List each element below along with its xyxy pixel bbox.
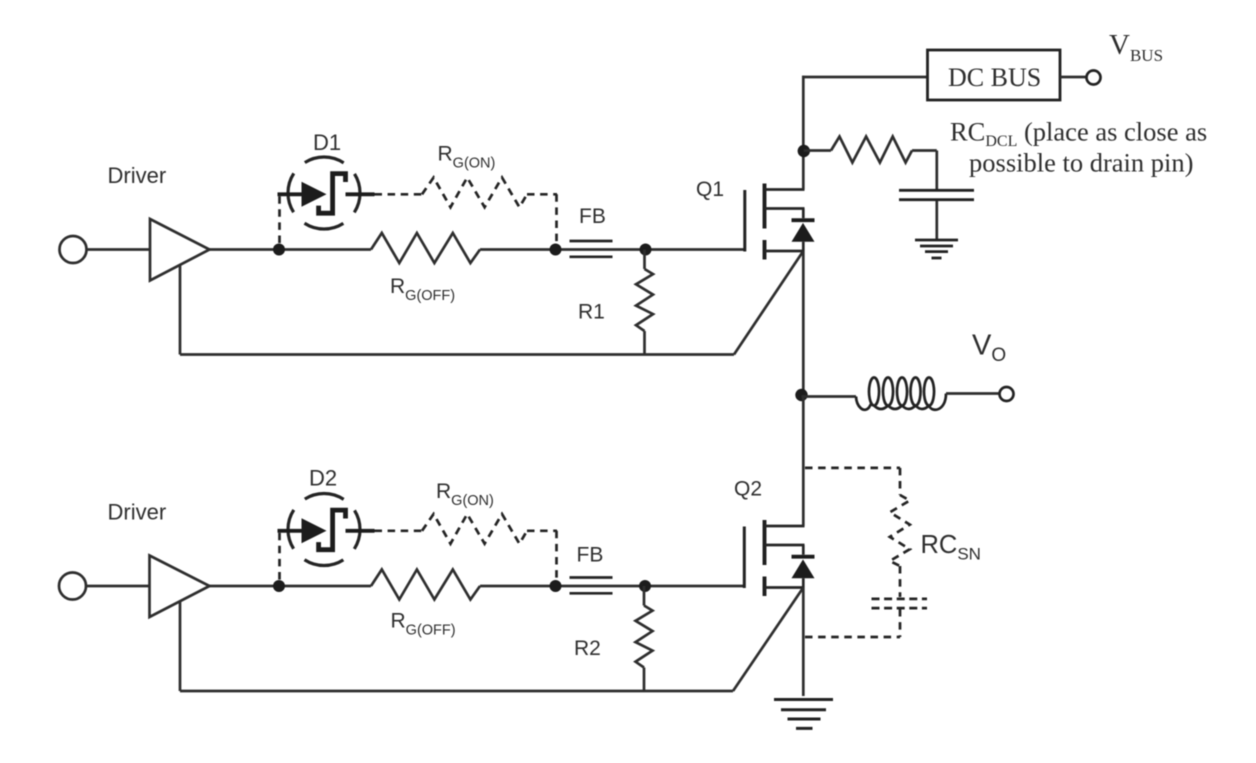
wire corner down to cap: [935, 151, 938, 190]
resistor RG(ON) dashed lead right (bottom): [527, 529, 557, 532]
diode D2 arrow triangle: [302, 518, 327, 543]
diode D2 cathode lead: [346, 529, 375, 533]
node dot B2 (bottom): [550, 580, 562, 592]
transistor Q1 drain tap: [765, 188, 805, 191]
body diode Q2 triangle: [792, 559, 815, 578]
wire driver output to RG(OFF) (top): [210, 248, 372, 251]
transistor Q1 source tap: [765, 250, 805, 253]
wire driver output to RG(OFF) (bottom): [210, 585, 372, 588]
transistor Q2 gate bar: [743, 527, 746, 589]
transistor Q2 drain tap: [765, 525, 805, 528]
op-amp driver U2 (bottom triangle): [150, 556, 210, 618]
svg-text:R1: R1: [578, 301, 605, 324]
resistor RG(ON) dashed zigzag (bottom): [422, 514, 527, 544]
node dot A1 (top): [273, 244, 285, 256]
node dot B1 (top): [550, 244, 562, 256]
wire Q1 source down to switch node: [802, 251, 805, 395]
svg-text:R2: R2: [574, 637, 601, 660]
wire node to RCDCL resistor: [804, 149, 831, 152]
wire feedback horizontal (bottom): [180, 690, 733, 693]
resistor RG(ON) dashed zigzag (top): [422, 178, 527, 208]
body diode Q2 cathode bar: [792, 555, 815, 559]
resistor RG(ON) dashed (top) : lead left: [375, 193, 423, 196]
wire dashed RCSN top branch: [805, 467, 900, 470]
wire Q2 body segment upper: [802, 545, 805, 555]
op-amp driver U1 (top triangle): [150, 219, 210, 281]
wire feedback horizontal (top): [180, 353, 734, 356]
transistor Q1 gate bar: [743, 190, 746, 252]
wire dashed RCSN right vertical upper: [899, 468, 902, 495]
svg-text:D2: D2: [309, 466, 337, 491]
wire RG(OFF) to gate (bottom): [480, 585, 745, 588]
wire feedback vertical below driver (top): [179, 266, 182, 355]
driver input terminal (top): [60, 236, 87, 263]
wire switch node down to Q2 drain: [802, 395, 805, 526]
resistor RG(OFF) zigzag (bottom): [371, 570, 480, 600]
svg-text:possible to drain pin): possible to drain pin): [969, 148, 1194, 178]
wire dashed node A2 up to D2: [278, 532, 281, 580]
diode D2 step cathode bar: [319, 510, 346, 550]
inductor L coil: [856, 378, 946, 410]
wire input to driver (top): [87, 248, 151, 251]
resistor R2 zigzag: [636, 606, 653, 668]
wire inductor to VO terminal: [946, 392, 1000, 395]
transistor Q1 channel bar upper: [763, 184, 767, 229]
resistor R1 lead top: [643, 250, 646, 270]
wire dashed RCSN resistor to cap: [899, 566, 902, 597]
node dot switch node: [795, 389, 807, 401]
wire Q2 body segment lower: [802, 578, 805, 587]
wire RCDCL resistor to corner: [912, 149, 937, 152]
diode D1 anode lead: [278, 192, 303, 196]
svg-text:Driver: Driver: [108, 500, 167, 525]
terminal circle VBUS: [1087, 71, 1101, 85]
svg-text:FB: FB: [579, 205, 606, 228]
node dot C2 (bottom): [639, 580, 651, 592]
wire Q1 body segment upper: [802, 209, 805, 219]
capacitor CDCL top plate: [899, 189, 974, 192]
transistor Q1 body tap: [765, 207, 805, 210]
wire dashed cap to bottom branch: [899, 609, 902, 637]
wire Q1 drain up to DC bus corner: [802, 76, 805, 190]
wire feedback diagonal to Q2 source: [733, 588, 803, 692]
transistor Q2 body tap: [765, 544, 805, 547]
transistor Q1 channel bar lower: [763, 240, 767, 260]
diode D1 step cathode bar: [319, 174, 346, 214]
svg-text:Driver: Driver: [108, 163, 167, 188]
diode D1 cathode lead: [346, 192, 375, 196]
node dot C1 (top): [640, 244, 652, 256]
wire input to driver (bottom): [86, 585, 150, 588]
transistor Q2 channel bar lower: [763, 577, 767, 597]
wire feedback vertical below driver (bottom): [179, 602, 182, 691]
DC BUS box: [928, 50, 1061, 100]
wire dashed RG(ON) down to node B1 (top): [555, 194, 558, 244]
capacitor CSN top plate dashed: [872, 598, 928, 601]
svg-text:Q1: Q1: [696, 178, 724, 201]
capacitor CDCL bottom plate: [899, 198, 974, 201]
ground symbol (RCDCL): [915, 240, 958, 258]
wire cap to ground: [935, 201, 938, 239]
resistor R1 zigzag: [636, 269, 653, 331]
transistor Q2 channel bar upper: [763, 520, 767, 565]
svg-text:DC BUS: DC BUS: [948, 63, 1041, 92]
resistor R2 lead top: [643, 586, 646, 606]
ferrite bead FB (bottom) upper bar: [570, 576, 613, 579]
resistor RCDCL zigzag: [831, 137, 912, 163]
transistor Q2 source tap: [765, 586, 805, 589]
resistor RG(ON) dashed lead left (bottom): [375, 529, 423, 532]
ground symbol (Q2): [774, 700, 833, 729]
body diode Q1 triangle: [792, 223, 815, 242]
resistor R1 lead bottom: [643, 331, 646, 355]
wire feedback diagonal to Q1 source: [734, 251, 803, 355]
wire dashed node A1 up to D1 (top): [278, 195, 281, 243]
ferrite bead FB (top) upper bar: [570, 240, 613, 243]
wire dashed RCSN bottom branch: [805, 636, 900, 639]
wire switch node to inductor: [802, 395, 857, 398]
wire dashed RG(ON) down to node B2: [555, 531, 558, 581]
wire RG(OFF) to gate (top): [480, 248, 745, 251]
body diode Q1 cathode bar: [792, 218, 815, 222]
ferrite bead FB (bottom) lower bar: [570, 592, 613, 595]
terminal circle VO: [1000, 387, 1014, 401]
diode D2 dashed circle: [288, 494, 360, 566]
resistor RG(OFF) zigzag (top): [371, 233, 480, 263]
svg-text:D1: D1: [313, 130, 341, 155]
resistor R2 lead bottom: [643, 668, 646, 692]
capacitor CSN bottom plate dashed: [872, 607, 928, 610]
node dot drain (Q1): [798, 145, 810, 157]
wire Q2 source down to ground: [802, 588, 805, 697]
driver input terminal (bottom): [59, 573, 86, 600]
wire Q1 body segment lower: [802, 242, 805, 251]
wire top horizontal to DC BUS box: [802, 76, 927, 79]
diode D1 arrow triangle: [302, 182, 327, 207]
node dot A2 (bottom): [273, 580, 285, 592]
svg-text:FB: FB: [577, 544, 604, 567]
wire DC BUS to VBUS terminal: [1060, 76, 1087, 79]
diode D2 anode lead: [278, 529, 303, 533]
ferrite bead FB (top) lower bar: [570, 255, 613, 258]
diode D1 dashed circle: [288, 157, 360, 229]
svg-text:Q2: Q2: [734, 478, 762, 501]
resistor RG(ON) dashed lead right (top): [527, 193, 557, 196]
resistor RCSN dashed zigzag: [890, 495, 910, 566]
